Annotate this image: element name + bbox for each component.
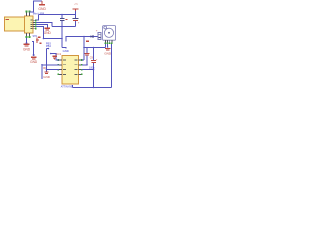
ground GND2 — [44, 28, 52, 35]
wire speaker pin b to GND5 — [107, 44, 109, 47]
wire shield to GND1 — [30, 1, 43, 12]
node junction (84,47.5) — [83, 47, 85, 49]
ground GND1 — [38, 1, 46, 11]
speaker LS1 body — [103, 26, 116, 41]
svg-text:GND: GND — [63, 49, 69, 53]
wire +5V rail — [39, 14, 76, 16]
svg-text:ATTINY85: ATTINY85 — [61, 85, 73, 88]
speaker LS1 terminal block — [98, 33, 101, 40]
node junction (84,36.5) — [83, 36, 85, 38]
wire speaker pin d down to bottom rail — [111, 44, 113, 87]
node junction (43.5,38.5) — [43, 38, 45, 40]
J1 shield pin S4 bottom — [29, 33, 31, 38]
wire C3 bottom to IC pin 7 — [86, 56, 88, 65]
IC U1 pin 7 — [79, 64, 83, 66]
node wire end (50.6,53.5) — [50, 53, 52, 55]
wire D+ to GND2 — [36, 25, 48, 28]
wire buzzer line down to IC pin 5 — [83, 37, 85, 61]
node junction (62,38.5) — [61, 38, 63, 40]
wire IC pin 7 — [82, 64, 87, 66]
IC U1 pin 8 — [79, 59, 83, 61]
J1 shield pin S2 top — [29, 11, 31, 16]
J1 shield pin S1 top — [26, 11, 28, 16]
power +5V symbol — [73, 3, 79, 11]
speaker LS1 pin a — [105, 40, 107, 44]
wire IC pin 6 long — [82, 69, 93, 71]
wire to buzzer line — [66, 37, 98, 42]
connector J1 pin block — [25, 16, 34, 33]
capacitor C2 polarized — [73, 18, 80, 24]
IC U1 body — [62, 56, 79, 84]
speaker LS1 pin d — [111, 40, 113, 44]
wire gnd net horizontal — [52, 26, 76, 28]
wire C6 bottom to IC pin 6 net — [93, 63, 95, 70]
wire stub end with label at (62,47.5) — [62, 48, 66, 49]
node junction (46.5,69.6) — [46, 69, 48, 71]
capacitor C3 — [84, 48, 93, 60]
net label red dash A — [38, 36, 41, 37]
J1 pin 5 GND — [33, 28, 37, 30]
capacitor C5 small red — [52, 56, 56, 59]
svg-text:100n: 100n — [89, 66, 95, 69]
svg-text:+: + — [96, 29, 98, 33]
wire speaker pin a to gnd return — [105, 44, 107, 47]
node junction (93.5,69.6) — [93, 69, 95, 71]
capacitor C1 — [60, 19, 68, 21]
IC U1 pin 3 — [57, 69, 62, 71]
wire bottom rail — [73, 85, 112, 87]
svg-text:GND: GND — [23, 48, 31, 52]
node junction (93.5,87.4) — [93, 87, 95, 89]
diode D1 — [91, 35, 94, 38]
wire labeled stub down to IC pin 3 net — [47, 49, 49, 70]
IC U1 inner pin name dashes — [63, 60, 78, 75]
speaker LS1 pin c — [109, 40, 111, 44]
capacitor C4 — [43, 70, 51, 80]
svg-text:SH1: SH1 — [33, 35, 38, 38]
wire +5V to rail — [75, 11, 77, 18]
wire rail to C1 — [61, 15, 63, 19]
svg-text:IC1: IC1 — [57, 52, 62, 56]
wire down from pin2 net — [41, 65, 43, 79]
wire D- down to gnd net — [36, 22, 52, 26]
node wire end (48.4,48.5) — [48, 48, 50, 50]
svg-text:GND: GND — [30, 60, 38, 64]
IC U1 pin 5 — [79, 74, 83, 76]
wire C2 bottom — [75, 21, 77, 27]
wire pin6 down to bottom rail — [93, 70, 95, 88]
ground GND5 — [104, 48, 112, 55]
connector J1 body — [5, 17, 25, 31]
IC U1 pin 4 — [57, 74, 62, 76]
wire gnd return horizontal y47.5 — [84, 47, 106, 49]
J1 pin 4 ID — [33, 26, 37, 28]
node junction (42,64.8) — [41, 64, 43, 66]
power flag red mark — [36, 38, 39, 43]
wire ID pin down — [36, 27, 44, 39]
node wire end dot GND5 — [107, 46, 109, 48]
node wire end dot — [33, 54, 35, 56]
J1 pin 2 D- — [33, 22, 37, 24]
wire IC pin 8 to buzzer net — [82, 59, 84, 61]
J1 pin name text dashes — [30, 20, 32, 29]
node junction (62,26.6) — [61, 26, 63, 28]
IC U1 pin 2 — [57, 64, 62, 66]
svg-text:+5V: +5V — [74, 3, 79, 6]
ground GND3 under connector — [23, 38, 31, 52]
node junction (93.5,47.5) — [93, 47, 95, 49]
node junction (87,64.8) — [86, 64, 88, 66]
svg-text:GND: GND — [38, 7, 46, 11]
svg-text:PB4: PB4 — [46, 44, 51, 48]
IC U1 pin 6 — [79, 69, 83, 71]
wire IC pin 2 left — [42, 64, 59, 66]
wire IC pin 3 left — [47, 69, 59, 71]
wire horizontal y38.5 — [44, 38, 63, 40]
svg-text:GND: GND — [104, 52, 112, 56]
svg-text:GND: GND — [43, 75, 51, 79]
node junction (62,14.5) — [61, 14, 63, 16]
wire VBUS to +5V rail — [36, 15, 39, 21]
svg-text:GND: GND — [44, 31, 52, 35]
capacitor C6 polarized — [91, 48, 98, 63]
J1 shield pin S3 bottom — [26, 33, 28, 38]
wire C1 bottom down long vertical — [61, 21, 63, 47]
wire IC pin 1 hook — [51, 54, 59, 61]
IC U1 pin 1 — [57, 59, 62, 61]
speaker LS1 pin b — [107, 40, 109, 44]
wire shield bottom to GND4 — [32, 42, 34, 56]
net label red dash B — [40, 42, 42, 44]
J1 pin 1 VBUS — [33, 19, 37, 21]
diode D1 label — [86, 41, 89, 42]
ground GND4 — [30, 57, 38, 64]
connector J1 reference label — [6, 19, 9, 20]
J1 pin 3 D+ — [33, 24, 37, 26]
